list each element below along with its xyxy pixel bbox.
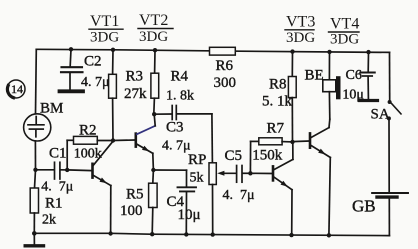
wire C5 junction to VT3 base [250, 172, 271, 174]
wire top supply rail [36, 49, 389, 52]
node R3 tap [111, 48, 115, 52]
svg-text:5k: 5k [190, 171, 204, 186]
svg-text:GB: GB [352, 196, 376, 215]
capacitor C5 [223, 148, 255, 203]
svg-text:R8: R8 [269, 76, 287, 92]
label VT2 3DG [138, 12, 173, 45]
svg-text:C6: C6 [346, 68, 362, 83]
node C1 / R1 junction [33, 168, 37, 172]
transistor VT3 [273, 144, 293, 235]
svg-text:R2: R2 [79, 122, 97, 138]
svg-text:27k: 27k [124, 86, 147, 102]
svg-text:C2: C2 [84, 54, 102, 70]
svg-text:R4: R4 [171, 69, 189, 85]
resistor R5 [120, 170, 157, 234]
svg-text:4. 7μ: 4. 7μ [41, 179, 73, 194]
earphone BE [305, 52, 341, 119]
resistor R4 [151, 50, 194, 114]
microphone BM [24, 101, 64, 141]
node VT2 collector / C3 [152, 112, 156, 116]
ground under C2 [60, 89, 84, 93]
svg-text:VT1: VT1 [90, 13, 119, 30]
resistor R2 [67, 122, 113, 170]
capacitor C4 [153, 170, 200, 234]
node VT3 emitter at rail [289, 233, 293, 237]
node rail left end [32, 231, 37, 236]
svg-text:R1: R1 [45, 196, 63, 212]
svg-text:VT3: VT3 [286, 13, 315, 30]
capacitor C1 [36, 146, 74, 195]
transistor VT4 [293, 119, 331, 235]
potentiometer RP [188, 114, 236, 234]
svg-text:10μ: 10μ [178, 207, 201, 223]
capacitor C2 [61, 49, 110, 90]
svg-text:300: 300 [214, 75, 237, 91]
svg-text:R3: R3 [126, 69, 144, 85]
label VT3 3DG [285, 13, 315, 46]
svg-text:150k: 150k [252, 148, 282, 164]
ground under C6 [360, 99, 378, 102]
node VT4 base / R8 / R7 / VT3 collector [290, 140, 294, 144]
label VT4 3DG [329, 16, 360, 48]
svg-text:R5: R5 [126, 187, 144, 203]
svg-text:5. 1k: 5. 1k [262, 93, 293, 109]
svg-text:BM: BM [40, 101, 63, 117]
node RP at rail [211, 232, 215, 236]
svg-text:3DG: 3DG [286, 30, 315, 46]
svg-text:3DG: 3DG [330, 32, 359, 48]
resistor R3 [109, 50, 147, 141]
svg-text:14: 14 [11, 82, 23, 96]
svg-text:1. 8k: 1. 8k [166, 89, 194, 104]
node R5 at rail [150, 232, 154, 236]
battery GB [352, 193, 408, 236]
resistor R6 [210, 47, 237, 91]
node BE tap [327, 50, 331, 54]
svg-text:C3: C3 [166, 120, 184, 136]
wire right supply drop [389, 52, 391, 100]
svg-text:SA: SA [371, 106, 390, 122]
node VT1 emitter at rail [108, 231, 112, 235]
svg-text:2k: 2k [42, 213, 56, 228]
resistor R7 [250, 120, 292, 173]
node VT4 emitter at rail [327, 233, 331, 237]
svg-text:RP: RP [188, 152, 206, 168]
wire left supply drop to BM [35, 49, 38, 113]
label VT1 3DG [89, 13, 123, 46]
svg-text:4. 7μ: 4. 7μ [81, 75, 110, 90]
node C6 tap [366, 50, 370, 54]
wire BM to C1 junction [34, 141, 36, 170]
transistor VT1 [93, 141, 114, 233]
svg-text:BE: BE [305, 68, 324, 84]
svg-text:VT4: VT4 [330, 16, 359, 33]
node VT1 collector / R2 / VT2 base [111, 138, 115, 142]
node C2 tap [69, 47, 73, 51]
node C4 at rail [184, 232, 188, 236]
svg-text:VT2: VT2 [139, 12, 168, 29]
switch SA [371, 100, 402, 122]
svg-text:3DG: 3DG [90, 30, 119, 46]
resistor R1 [30, 170, 62, 234]
node R4 tap [153, 48, 157, 52]
ground at rail left end [25, 233, 43, 245]
wire bottom common rail [34, 233, 389, 235]
transistor VT2 [113, 114, 155, 170]
wire C1 junction to VT1 base [67, 169, 91, 172]
svg-text:R6: R6 [216, 58, 234, 74]
capacitor C3 [154, 106, 212, 154]
svg-text:C1: C1 [49, 146, 67, 162]
resistor R8 [262, 52, 296, 142]
node VT2 emitter / R5 / C4 [151, 168, 155, 172]
svg-text:100: 100 [120, 203, 143, 219]
node VT1 base junction [65, 168, 69, 172]
node R8 tap [290, 49, 294, 53]
svg-text:4. 7μ: 4. 7μ [223, 188, 255, 203]
capacitor C6 [342, 52, 374, 103]
svg-text:R7: R7 [267, 120, 285, 136]
node VT3 base junction [248, 171, 252, 175]
svg-text:3DG: 3DG [139, 29, 168, 45]
callout circle 14 [7, 80, 25, 98]
svg-text:4. 7μ: 4. 7μ [162, 139, 191, 154]
wire SA to GB [388, 120, 390, 192]
svg-text:C5: C5 [225, 148, 243, 164]
